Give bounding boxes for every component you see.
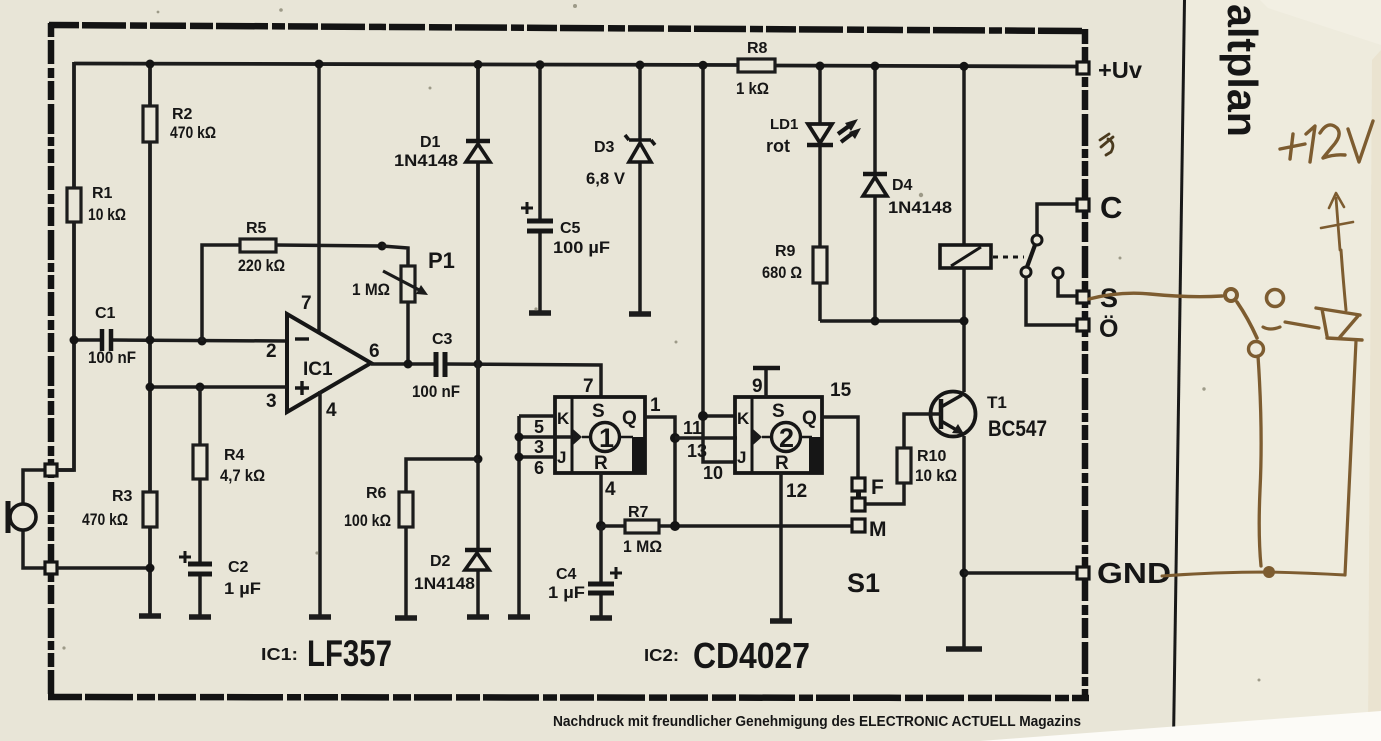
switch S contact circle xyxy=(1053,268,1063,278)
svg-text:R3: R3 xyxy=(112,488,133,505)
svg-text:C4: C4 xyxy=(556,566,577,583)
svg-text:CD4027: CD4027 xyxy=(693,635,810,676)
IC2a divider xyxy=(571,397,574,473)
svg-text:R: R xyxy=(775,453,789,474)
svg-text:100 nF: 100 nF xyxy=(88,349,136,367)
ground C2 xyxy=(189,614,211,620)
op-amp IC1 triangle xyxy=(287,314,371,412)
svg-text:470 kΩ: 470 kΩ xyxy=(170,124,216,142)
page right edge tint xyxy=(1368,50,1381,741)
wire R5 to P1 node xyxy=(276,245,382,246)
node D2/R6 corner dot xyxy=(474,455,483,464)
S1 terminal square M xyxy=(852,519,865,532)
svg-text:R10: R10 xyxy=(917,448,946,465)
wire C2 to ground xyxy=(198,576,202,617)
svg-text:12: 12 xyxy=(786,481,807,502)
LED LD1 triangle xyxy=(808,124,832,143)
wire collector bottom line xyxy=(820,319,964,323)
svg-text:470 kΩ: 470 kΩ xyxy=(82,511,128,529)
opamp plus sign xyxy=(295,381,309,395)
wire O terminal xyxy=(1026,277,1078,325)
terminal square O xyxy=(1077,319,1089,331)
ground C4 xyxy=(590,615,612,621)
handwritten contact ring 2 xyxy=(1267,290,1284,307)
dashed frame left edge xyxy=(48,23,55,697)
zener D3 triangle xyxy=(629,143,651,162)
svg-text:T1: T1 xyxy=(987,393,1007,412)
handwritten arrow shaft xyxy=(1336,198,1340,250)
svg-text:1 µF: 1 µF xyxy=(224,580,261,598)
wire S terminal xyxy=(1058,278,1078,296)
svg-text:K: K xyxy=(557,409,570,428)
switch arm xyxy=(1027,245,1035,267)
svg-text:6: 6 xyxy=(369,341,380,362)
capacitor C1 plates xyxy=(102,329,111,351)
svg-text:D2: D2 xyxy=(430,553,451,570)
svg-text:R1: R1 xyxy=(92,185,113,202)
IC2a black block xyxy=(632,437,645,473)
T1 base bar xyxy=(939,399,944,429)
S1 terminal square mid xyxy=(852,498,865,511)
svg-text:R8: R8 xyxy=(747,40,768,57)
handwritten GND wire xyxy=(1162,572,1345,576)
node pin11 dot xyxy=(698,411,708,421)
svg-text:1 µF: 1 µF xyxy=(548,584,585,602)
svg-text:LD1: LD1 xyxy=(770,116,798,133)
node rail-left corner dot xyxy=(70,336,79,345)
node rail pin7 dot xyxy=(315,60,324,69)
handwritten vertical wire left xyxy=(1258,356,1261,566)
node C1/feedback dot xyxy=(198,337,207,346)
resistor R10 xyxy=(897,448,911,483)
wire P1 top lead xyxy=(382,246,408,266)
relay diagonal xyxy=(951,247,981,266)
page bottom edge white wedge xyxy=(980,711,1381,741)
node rail D1 dot xyxy=(474,60,483,69)
relay dashed link xyxy=(993,256,1024,259)
node pin3/R4 dot xyxy=(196,383,205,392)
svg-text:S: S xyxy=(772,401,785,422)
svg-text:R5: R5 xyxy=(246,220,267,237)
resistor R4 xyxy=(193,445,207,479)
svg-text:D4: D4 xyxy=(892,177,913,194)
relay coil box xyxy=(940,245,991,268)
svg-text:5: 5 xyxy=(534,417,544,437)
svg-text:Nachdruck mit freundlicher Gen: Nachdruck mit freundlicher Genehmigung d… xyxy=(553,714,1081,730)
potentiometer P1 wiper arrow xyxy=(383,271,423,292)
IC2b clock chevron xyxy=(753,429,762,445)
svg-text:100 µF: 100 µF xyxy=(553,239,610,257)
node Q1/clock2 dot xyxy=(670,433,680,443)
T1 emitter stroke xyxy=(941,421,960,432)
ground FF2 pin12 xyxy=(770,618,792,624)
svg-text:220 kΩ: 220 kΩ xyxy=(238,257,285,275)
handwritten contact ring 3 xyxy=(1249,342,1264,357)
diode D2 cathode bar xyxy=(465,548,491,553)
scan specks xyxy=(62,4,1260,682)
wire FF1 pin3 xyxy=(519,435,572,439)
wire D3 branch xyxy=(638,65,642,313)
handwritten arm to ring 3 xyxy=(1237,302,1257,338)
handwritten junction blob xyxy=(1263,566,1275,578)
dashed frame bottom edge xyxy=(48,697,1089,698)
terminal square +Uv xyxy=(1077,62,1089,74)
svg-text:3: 3 xyxy=(266,391,277,412)
svg-text:1 MΩ: 1 MΩ xyxy=(352,281,390,299)
IC2a clock chevron xyxy=(573,429,582,445)
svg-text:4,7 kΩ: 4,7 kΩ xyxy=(220,467,265,485)
wire FF2 Q2 output xyxy=(822,417,858,478)
ground R6 xyxy=(395,615,417,621)
node rail JK dot xyxy=(699,61,708,70)
flip-flop IC2b box xyxy=(735,397,822,473)
IC2b black block xyxy=(809,437,822,473)
paper background right of separator xyxy=(1172,0,1381,741)
svg-text:6,8 V: 6,8 V xyxy=(586,170,625,188)
capacitor C2 plates xyxy=(188,564,212,574)
page top-right light corner xyxy=(1260,0,1381,45)
handwritten plus sign xyxy=(1280,134,1305,159)
handwritten wire from S terminal xyxy=(1089,293,1222,299)
ground FF1 left xyxy=(508,614,530,620)
svg-text:P1: P1 xyxy=(428,248,455,273)
wire JK supply vertical xyxy=(703,65,735,462)
svg-text:C1: C1 xyxy=(95,305,116,322)
capacitor C1 wires xyxy=(74,340,287,341)
svg-text:100 nF: 100 nF xyxy=(412,383,460,401)
C2 plus xyxy=(179,551,191,563)
node mic/R3 dot xyxy=(146,564,155,573)
wire FF1 pin4 xyxy=(599,473,603,526)
wire FF2 pin9 xyxy=(764,369,768,397)
ground pin4 xyxy=(309,614,331,620)
handwritten digit 1 xyxy=(1306,126,1315,162)
wire R7 right xyxy=(659,524,852,528)
svg-text:IC1:: IC1: xyxy=(261,644,298,664)
svg-text:F: F xyxy=(871,476,884,499)
wire T1 base lead xyxy=(904,414,941,448)
svg-text:1: 1 xyxy=(599,423,614,453)
S1 terminal square F xyxy=(852,478,865,491)
svg-text:IC1: IC1 xyxy=(303,359,333,380)
resistor R9 xyxy=(813,247,827,283)
node R7/Q1 dot xyxy=(670,521,680,531)
svg-text:Q: Q xyxy=(802,408,817,429)
wire T1 emitter to ground xyxy=(962,436,966,648)
wire FF1 left vertical to ground xyxy=(517,416,521,617)
node rail relay dot xyxy=(960,62,969,71)
diode D2 triangle xyxy=(465,553,489,570)
node collector dot xyxy=(960,317,969,326)
svg-text:S: S xyxy=(592,401,605,422)
svg-text:LF357: LF357 xyxy=(307,633,392,674)
ground T1 emitter xyxy=(946,646,982,652)
wire relay/collector vertical xyxy=(962,66,966,392)
resistor R1 xyxy=(67,188,81,222)
mic terminal square bottom xyxy=(45,562,57,574)
svg-text:6: 6 xyxy=(534,458,544,478)
terminal square S xyxy=(1077,291,1089,303)
node D4 bottom dot xyxy=(871,317,880,326)
diode D1 triangle xyxy=(466,144,490,162)
wire mic top inside xyxy=(57,468,74,472)
transistor T1 circle xyxy=(931,392,976,437)
svg-text:R6: R6 xyxy=(366,485,387,502)
node rail D3 dot xyxy=(636,61,645,70)
wire clock2 line xyxy=(675,436,737,440)
node pin3 dot xyxy=(515,433,524,442)
wire FF2 pin12 xyxy=(779,473,783,621)
svg-text:13: 13 xyxy=(687,441,707,461)
svg-text:J: J xyxy=(737,448,746,467)
IC2b inner line xyxy=(762,436,812,439)
ground R3 xyxy=(139,613,161,619)
capacitor C5 plates xyxy=(527,221,553,231)
C5 plus xyxy=(521,202,533,214)
wire R6 to ground xyxy=(404,527,408,618)
opamp minus sign xyxy=(295,337,309,340)
svg-text:C: C xyxy=(1100,190,1122,225)
diode D4 triangle xyxy=(863,177,887,196)
svg-text:GND: GND xyxy=(1097,558,1171,590)
node rail R2 dot xyxy=(146,60,155,69)
flip-flop IC2a box xyxy=(555,397,645,473)
svg-text:C2: C2 xyxy=(228,559,249,576)
svg-text:D3: D3 xyxy=(594,139,615,156)
handwritten digit 2 xyxy=(1320,125,1345,158)
wire opamp output line xyxy=(371,364,601,397)
diode D4 cathode bar xyxy=(863,172,887,177)
page separator black line xyxy=(1172,0,1186,741)
svg-text:R: R xyxy=(594,453,608,474)
svg-text:C3: C3 xyxy=(432,331,453,348)
dashed frame top edge xyxy=(49,25,1086,31)
wire C5 branch xyxy=(538,65,542,312)
handwritten vertical wire right xyxy=(1345,341,1356,575)
resistor R7 xyxy=(601,524,625,528)
svg-text:D1: D1 xyxy=(420,134,441,151)
resistor R3 xyxy=(143,492,157,527)
capacitor C3 plates xyxy=(436,352,445,377)
wire opamp pin7 to rail xyxy=(317,64,321,334)
S1 link bar xyxy=(856,491,861,498)
svg-text:R4: R4 xyxy=(224,447,245,464)
dashed frame right edge xyxy=(1082,29,1089,698)
node rail C5 dot xyxy=(536,60,545,69)
wire D4 branch xyxy=(873,66,877,321)
wire FF1 pin6 xyxy=(519,455,555,459)
svg-text:rot: rot xyxy=(766,136,790,156)
node P1 top dot xyxy=(378,242,387,251)
svg-text:R2: R2 xyxy=(172,106,193,123)
IC2a inner line xyxy=(582,436,633,439)
svg-text:7: 7 xyxy=(301,293,312,314)
zener D3 bar xyxy=(625,135,655,145)
LED LD1 cathode bar xyxy=(807,143,833,148)
handwritten link hook to arrow xyxy=(1341,250,1346,310)
resistor R5 xyxy=(240,239,276,252)
potentiometer P1 body xyxy=(401,266,415,302)
wire R4 vertical xyxy=(198,387,202,562)
wire GND line xyxy=(964,571,1078,575)
handwritten mark near +Uv xyxy=(1100,134,1113,155)
microphone capsule xyxy=(10,504,36,530)
svg-text:+Uv: +Uv xyxy=(1098,57,1142,83)
wire LED/R9 branch xyxy=(818,66,822,321)
node C1/R2 dot xyxy=(146,336,155,345)
svg-text:M: M xyxy=(869,518,887,541)
svg-text:IC2:: IC2: xyxy=(644,645,679,665)
svg-text:1 kΩ: 1 kΩ xyxy=(736,80,769,98)
wire C terminal xyxy=(1037,204,1078,235)
wire left vertical rail xyxy=(57,62,74,470)
svg-text:R7: R7 xyxy=(628,504,649,521)
IC2b divider xyxy=(751,397,754,473)
svg-text:10: 10 xyxy=(703,463,723,483)
svg-text:680 Ω: 680 Ω xyxy=(762,264,802,282)
svg-text:altplan: altplan xyxy=(1219,4,1266,137)
node rail LED dot xyxy=(816,62,825,71)
resistor R6 xyxy=(399,492,413,527)
wire mic bottom inside xyxy=(57,566,150,570)
node output/P1 dot xyxy=(404,360,413,369)
svg-text:4: 4 xyxy=(605,479,616,500)
wire pin11 stub xyxy=(703,414,735,418)
svg-text:7: 7 xyxy=(583,376,594,397)
svg-text:K: K xyxy=(737,409,750,428)
handwritten tick across arrow xyxy=(1321,222,1353,228)
switch pivot contact circle xyxy=(1032,235,1042,245)
handwritten dash to hook xyxy=(1263,322,1319,329)
svg-text:2: 2 xyxy=(266,341,277,362)
wire top rail right of R8 xyxy=(774,66,1079,67)
wire R2 branch vertical xyxy=(148,64,152,617)
microphone membrane bar xyxy=(6,501,11,533)
diode D1 cathode bar xyxy=(466,139,490,144)
svg-text:3: 3 xyxy=(534,437,544,457)
wire feedback vertical xyxy=(202,245,240,341)
wire D2 branch xyxy=(476,459,480,617)
wire opamp pin4 to ground xyxy=(318,391,322,617)
svg-text:2: 2 xyxy=(779,423,794,453)
svg-text:4: 4 xyxy=(326,400,337,421)
svg-text:11: 11 xyxy=(683,418,702,438)
node pin4/R7/C4 dot xyxy=(596,521,606,531)
microphone wires outside frame xyxy=(23,470,46,568)
T1 collector stroke xyxy=(941,395,962,407)
svg-text:Ö: Ö xyxy=(1099,314,1118,343)
svg-text:1N4148: 1N4148 xyxy=(414,575,475,593)
node rail D4 dot xyxy=(871,62,880,71)
svg-text:1: 1 xyxy=(650,395,661,416)
handwritten arrowhead xyxy=(1329,193,1344,208)
IC2b circle 2 xyxy=(772,423,801,452)
node output/D1 dot xyxy=(474,360,483,369)
svg-text:S: S xyxy=(1100,283,1118,313)
svg-text:100 kΩ: 100 kΩ xyxy=(344,512,391,530)
capacitor C4 plates xyxy=(588,584,614,593)
pin9 top bar xyxy=(753,366,780,371)
wire +Uv top rail xyxy=(74,64,739,66)
svg-text:BC547: BC547 xyxy=(988,416,1047,441)
terminal square C xyxy=(1077,199,1089,211)
svg-text:1 MΩ: 1 MΩ xyxy=(623,538,662,556)
svg-text:15: 15 xyxy=(830,380,852,401)
wire R10 bottom to S1 xyxy=(866,483,904,504)
ground D3 xyxy=(629,311,651,317)
svg-text:C5: C5 xyxy=(560,220,581,237)
resistor R8 in rail xyxy=(738,59,775,72)
wire P1 bottom lead xyxy=(406,302,410,364)
mic terminal square top xyxy=(45,464,57,476)
svg-text:9: 9 xyxy=(752,376,763,397)
wire pin3 line xyxy=(150,385,287,389)
ground D2 xyxy=(467,614,489,620)
wire to R6 xyxy=(406,459,478,492)
resistor R2 xyxy=(143,106,157,142)
node emitter/GND dot xyxy=(960,569,969,578)
LED arrows xyxy=(838,126,853,142)
T1 emitter arrowhead xyxy=(952,424,964,434)
svg-text:1N4148: 1N4148 xyxy=(888,199,952,217)
handwritten letter V xyxy=(1348,121,1373,162)
C4 plus xyxy=(610,567,622,579)
wire C4 vertical xyxy=(599,526,603,617)
svg-text:10 kΩ: 10 kΩ xyxy=(915,467,957,485)
node pin6 dot xyxy=(515,453,524,462)
svg-text:J: J xyxy=(557,448,566,467)
svg-text:10 kΩ: 10 kΩ xyxy=(88,206,126,224)
IC2a circle 1 xyxy=(591,423,620,452)
wire FF1 pin5 xyxy=(519,414,555,418)
ground C5 xyxy=(529,310,551,316)
wire FF1 Q output xyxy=(645,417,675,526)
svg-text:Q: Q xyxy=(622,408,637,429)
wire D1 branch vertical xyxy=(476,65,480,460)
switch arm lower contact circle xyxy=(1021,267,1031,277)
node pin3/R2R3 dot xyxy=(146,383,155,392)
handwritten hook symbol xyxy=(1316,308,1362,340)
terminal square GND xyxy=(1077,567,1089,579)
svg-text:R9: R9 xyxy=(775,243,796,260)
svg-text:S1: S1 xyxy=(847,568,880,598)
svg-text:1N4148: 1N4148 xyxy=(394,152,458,170)
handwritten contact ring 1 xyxy=(1225,289,1237,301)
